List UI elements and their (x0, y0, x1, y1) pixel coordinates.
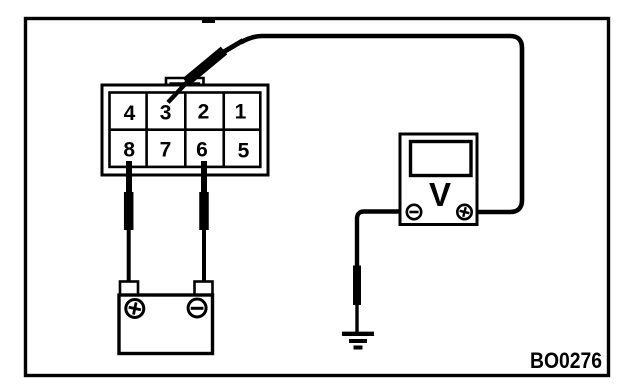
svg-text:1: 1 (235, 101, 247, 124)
svg-text:6: 6 (196, 138, 208, 161)
svg-text:BO0276: BO0276 (530, 348, 602, 373)
svg-text:3: 3 (160, 102, 172, 125)
svg-text:5: 5 (238, 139, 250, 162)
svg-text:7: 7 (160, 139, 172, 162)
svg-text:8: 8 (123, 139, 135, 162)
svg-text:V: V (429, 176, 451, 213)
svg-text:4: 4 (124, 102, 136, 125)
svg-text:2: 2 (198, 101, 210, 124)
